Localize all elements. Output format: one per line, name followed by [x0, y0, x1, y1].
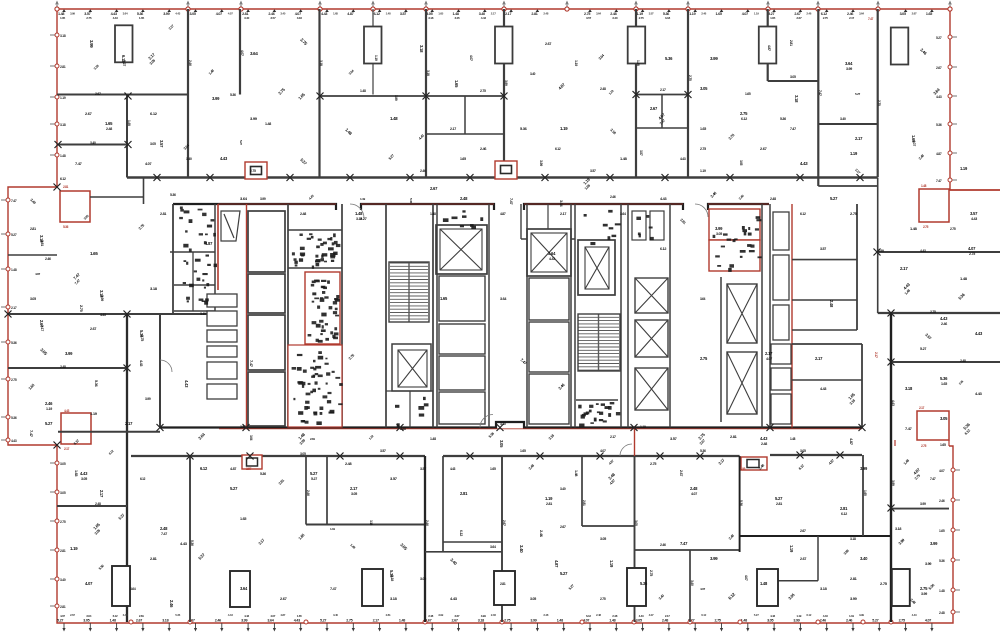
svg-text:2.81: 2.81 — [150, 556, 158, 561]
wall vertical x188 — [187, 9, 189, 177]
wall vertical x319 — [318, 9, 320, 177]
svg-text:2.48: 2.48 — [60, 365, 66, 369]
svg-text:2.46: 2.46 — [306, 490, 310, 496]
svg-text:5.27: 5.27 — [239, 140, 243, 145]
core top wall y204 — [173, 204, 769, 210]
svg-text:3.57: 3.57 — [159, 140, 164, 148]
svg-text:5.27: 5.27 — [320, 619, 326, 623]
svg-text:6.12: 6.12 — [806, 613, 811, 617]
svg-text:2.46: 2.46 — [45, 401, 53, 406]
svg-text:2.48: 2.48 — [960, 359, 966, 363]
wall y313 — [878, 312, 1000, 314]
svg-text:3.99: 3.99 — [793, 619, 799, 623]
svg-text:2.48: 2.48 — [491, 613, 496, 617]
svg-text:4.43: 4.43 — [450, 596, 458, 601]
svg-text:5.27: 5.27 — [311, 477, 317, 481]
svg-text:2.67: 2.67 — [452, 619, 458, 623]
svg-text:2.17: 2.17 — [491, 12, 496, 16]
svg-text:2.67: 2.67 — [800, 529, 806, 533]
svg-text:3.40: 3.40 — [612, 16, 618, 20]
svg-text:5.27: 5.27 — [360, 216, 367, 221]
svg-text:4.07: 4.07 — [744, 575, 748, 581]
svg-text:3.05: 3.05 — [499, 440, 504, 448]
door arcs — [160, 204, 708, 456]
svg-text:2.67: 2.67 — [95, 92, 101, 96]
svg-text:4.43: 4.43 — [823, 614, 828, 618]
svg-text:2.81: 2.81 — [160, 212, 166, 216]
svg-text:5.27: 5.27 — [45, 421, 53, 426]
svg-text:2.81: 2.81 — [531, 12, 537, 16]
svg-text:3.57: 3.57 — [270, 16, 276, 20]
wall y252 — [878, 251, 1000, 253]
svg-text:1.19: 1.19 — [374, 55, 378, 61]
svg-text:2.48: 2.48 — [761, 442, 767, 446]
svg-text:2.67: 2.67 — [455, 614, 460, 618]
svg-text:5.36: 5.36 — [936, 123, 942, 127]
svg-text:1.19: 1.19 — [640, 425, 646, 429]
svg-text:3.64: 3.64 — [859, 12, 864, 16]
svg-text:5.36: 5.36 — [739, 500, 743, 506]
svg-text:2.48: 2.48 — [95, 502, 101, 506]
svg-text:4.43: 4.43 — [639, 614, 644, 618]
svg-text:2.46: 2.46 — [45, 257, 51, 261]
elevator shafts lobby boxes — [248, 211, 285, 272]
svg-text:3.99: 3.99 — [163, 12, 169, 16]
svg-text:3.64: 3.64 — [250, 51, 258, 56]
svg-text:4.07: 4.07 — [228, 12, 233, 16]
wc red room — [305, 272, 340, 344]
bottom shafts — [112, 566, 130, 606]
wall x634 — [634, 456, 636, 622]
svg-text:3.40: 3.40 — [123, 613, 128, 617]
svg-text:1.19: 1.19 — [90, 411, 98, 416]
svg-text:3.99: 3.99 — [539, 160, 543, 166]
svg-text:3.99: 3.99 — [530, 619, 536, 623]
svg-text:3.05: 3.05 — [83, 619, 89, 623]
svg-text:2.46: 2.46 — [169, 600, 174, 608]
svg-text:1.48: 1.48 — [399, 619, 405, 623]
wall y94 left — [57, 94, 188, 96]
svg-text:2.75: 2.75 — [649, 570, 653, 576]
svg-text:7.47: 7.47 — [790, 127, 796, 131]
svg-text:4.07: 4.07 — [939, 469, 945, 473]
svg-text:1.48: 1.48 — [430, 212, 436, 216]
svg-text:3.99: 3.99 — [921, 592, 927, 596]
svg-text:1.19: 1.19 — [60, 96, 66, 100]
svg-text:2.17: 2.17 — [560, 212, 566, 216]
svg-text:5.27: 5.27 — [11, 233, 17, 237]
svg-text:7.47: 7.47 — [161, 532, 167, 536]
wall y536 — [740, 535, 891, 537]
svg-text:1.65: 1.65 — [60, 16, 66, 20]
svg-text:5.27: 5.27 — [830, 196, 838, 201]
svg-text:3.64: 3.64 — [249, 435, 253, 441]
svg-text:2.75: 2.75 — [60, 520, 66, 524]
svg-text:7.47: 7.47 — [249, 360, 254, 368]
wall y144 left — [57, 144, 127, 146]
svg-text:3.40: 3.40 — [90, 141, 96, 145]
svg-text:2.48: 2.48 — [770, 197, 776, 201]
core bottom wall y427 — [160, 422, 862, 428]
svg-text:1.65: 1.65 — [863, 490, 867, 496]
svg-text:2.17: 2.17 — [373, 619, 379, 623]
svg-text:1.19: 1.19 — [850, 151, 858, 156]
svg-text:2.48: 2.48 — [543, 12, 548, 16]
column — [891, 28, 909, 65]
red connect lower right — [895, 440, 949, 446]
svg-text:4.43: 4.43 — [975, 391, 983, 396]
long wall y177 — [127, 176, 878, 178]
svg-text:2.67: 2.67 — [936, 66, 942, 70]
svg-text:4.43: 4.43 — [180, 541, 188, 546]
wall vertical x636 — [635, 9, 637, 177]
svg-text:3.57: 3.57 — [970, 211, 978, 216]
wall vertical x426 — [425, 9, 427, 177]
wall x739 — [739, 456, 741, 552]
svg-text:3.40: 3.40 — [840, 117, 846, 121]
svg-text:3.05: 3.05 — [739, 160, 743, 166]
svg-text:2.75: 2.75 — [700, 147, 706, 151]
svg-text:3.99: 3.99 — [740, 467, 746, 471]
shaft boxes below E1 — [439, 276, 485, 321]
svg-text:3.18: 3.18 — [895, 527, 901, 531]
extra wc speckles — [294, 233, 337, 266]
duct boxes lower right — [771, 344, 791, 364]
svg-text:4.07: 4.07 — [700, 587, 706, 591]
svg-text:5.36: 5.36 — [230, 93, 236, 97]
svg-text:4.43: 4.43 — [971, 217, 977, 221]
svg-text:2.81: 2.81 — [582, 500, 586, 506]
shaft column right — [769, 204, 771, 428]
svg-text:5.27: 5.27 — [775, 496, 783, 501]
svg-text:2.81: 2.81 — [40, 240, 44, 246]
svg-text:3.57: 3.57 — [639, 150, 643, 156]
svg-text:1.19: 1.19 — [545, 496, 553, 501]
svg-text:3.05: 3.05 — [940, 416, 948, 421]
svg-text:4.87: 4.87 — [500, 212, 506, 216]
svg-text:1.65: 1.65 — [74, 470, 78, 476]
svg-text:4.07: 4.07 — [742, 12, 748, 16]
svg-text:1.65: 1.65 — [440, 296, 448, 301]
wall x502 — [501, 456, 503, 622]
wall vertical x240 — [239, 9, 241, 95]
wall x443 — [442, 456, 444, 552]
svg-text:3.99: 3.99 — [925, 562, 931, 566]
svg-text:4.43: 4.43 — [220, 156, 228, 161]
svg-text:4.07: 4.07 — [691, 492, 697, 496]
svg-text:2.81: 2.81 — [460, 491, 468, 496]
svg-text:3.18: 3.18 — [794, 95, 799, 103]
svg-text:4.43: 4.43 — [113, 16, 119, 20]
svg-text:3.99: 3.99 — [260, 197, 266, 201]
svg-text:3.05: 3.05 — [351, 492, 357, 496]
svg-text:2.48: 2.48 — [829, 300, 834, 308]
svg-text:3.05: 3.05 — [900, 12, 906, 16]
svg-text:3.57: 3.57 — [380, 449, 386, 453]
svg-text:1.19: 1.19 — [360, 197, 366, 201]
svg-text:2.67: 2.67 — [800, 557, 806, 561]
wall y186 — [818, 185, 877, 187]
svg-text:4.87: 4.87 — [230, 467, 236, 471]
svg-text:3.40: 3.40 — [530, 72, 536, 76]
svg-text:5.36: 5.36 — [11, 341, 17, 345]
wall y550 — [635, 549, 740, 551]
svg-text:2.81: 2.81 — [386, 613, 391, 617]
svg-text:4.87: 4.87 — [849, 438, 854, 446]
svg-text:3.64: 3.64 — [620, 212, 626, 216]
svg-text:2.75: 2.75 — [700, 356, 708, 361]
svg-text:3.05: 3.05 — [636, 619, 642, 623]
svg-text:1.65: 1.65 — [139, 16, 145, 20]
svg-text:3.99: 3.99 — [70, 12, 75, 16]
svg-text:3.18: 3.18 — [850, 537, 856, 541]
svg-text:4.43: 4.43 — [244, 614, 249, 618]
svg-text:5.36: 5.36 — [939, 559, 945, 563]
svg-text:2.46: 2.46 — [806, 12, 811, 16]
wall x863 — [862, 455, 864, 536]
svg-text:3.40: 3.40 — [200, 312, 206, 316]
svg-text:1.65: 1.65 — [90, 251, 98, 256]
svg-text:3.05: 3.05 — [716, 232, 722, 236]
svg-text:4.87: 4.87 — [280, 613, 285, 617]
svg-text:2.75: 2.75 — [504, 619, 510, 623]
shaft red box on y177 a — [245, 162, 267, 179]
svg-text:4.43: 4.43 — [920, 249, 926, 253]
svg-text:2.48: 2.48 — [596, 613, 601, 617]
svg-text:5.27: 5.27 — [122, 60, 126, 66]
svg-text:3.64: 3.64 — [86, 614, 91, 618]
red line y190 right — [949, 189, 1000, 191]
svg-text:4.07: 4.07 — [649, 613, 654, 617]
svg-text:3.99: 3.99 — [860, 466, 868, 471]
svg-text:1.65: 1.65 — [716, 12, 722, 16]
svg-text:2.17: 2.17 — [505, 12, 511, 16]
svg-text:3.05: 3.05 — [300, 452, 306, 456]
svg-text:5.27: 5.27 — [920, 347, 926, 351]
svg-text:1.65: 1.65 — [745, 92, 751, 96]
svg-text:4.43: 4.43 — [139, 360, 143, 366]
core left walls — [172, 204, 174, 314]
svg-text:3.99: 3.99 — [715, 226, 723, 231]
svg-text:3.99: 3.99 — [930, 541, 938, 546]
svg-text:2.75: 2.75 — [715, 619, 721, 623]
svg-text:3.05: 3.05 — [767, 619, 773, 623]
svg-text:4.43: 4.43 — [760, 436, 768, 441]
svg-text:4.43: 4.43 — [975, 331, 983, 336]
svg-text:3.05: 3.05 — [700, 86, 708, 91]
svg-text:2.46: 2.46 — [539, 530, 544, 538]
svg-text:5.27: 5.27 — [230, 486, 238, 491]
svg-text:1.48: 1.48 — [609, 619, 615, 623]
svg-text:5.36: 5.36 — [409, 198, 413, 204]
svg-text:3.64: 3.64 — [240, 196, 248, 201]
svg-text:3.99: 3.99 — [438, 613, 443, 617]
svg-text:7.47: 7.47 — [930, 477, 936, 481]
svg-text:3.57: 3.57 — [670, 436, 677, 441]
svg-text:3.18: 3.18 — [390, 575, 394, 581]
svg-text:4.43: 4.43 — [175, 12, 180, 16]
svg-text:4.07: 4.07 — [270, 614, 275, 618]
wall y124 — [818, 123, 877, 125]
svg-text:2.75: 2.75 — [877, 100, 881, 106]
svg-text:3.18: 3.18 — [319, 60, 323, 66]
wall x127 lower — [126, 314, 128, 622]
svg-text:4.43: 4.43 — [660, 197, 667, 201]
svg-text:3.18: 3.18 — [60, 123, 66, 127]
svg-text:2.75: 2.75 — [950, 227, 956, 231]
svg-text:5.36: 5.36 — [63, 225, 69, 229]
svg-text:2.17: 2.17 — [350, 486, 358, 491]
svg-text:5.36: 5.36 — [780, 117, 786, 121]
svg-text:3.99: 3.99 — [145, 397, 151, 401]
wall vertical x877 — [877, 9, 879, 177]
svg-text:2.17: 2.17 — [919, 406, 925, 410]
svg-text:3.57: 3.57 — [400, 12, 406, 16]
svg-text:2.75: 2.75 — [140, 335, 144, 341]
svg-text:3.57: 3.57 — [390, 476, 398, 481]
column — [115, 25, 133, 62]
svg-text:4.43: 4.43 — [912, 613, 917, 617]
svg-text:5.27: 5.27 — [754, 613, 759, 617]
svg-text:3.40: 3.40 — [560, 487, 566, 491]
svg-text:3.57: 3.57 — [649, 12, 654, 16]
wall y94 mid2 — [636, 94, 688, 96]
junction ticks — [5, 91, 895, 512]
svg-text:3.40: 3.40 — [280, 12, 285, 16]
svg-text:1.48: 1.48 — [110, 619, 116, 623]
svg-text:2.67: 2.67 — [70, 613, 75, 617]
svg-text:3.64: 3.64 — [596, 12, 601, 16]
svg-text:2.17: 2.17 — [11, 306, 17, 310]
svg-text:2.17: 2.17 — [125, 421, 133, 426]
svg-text:4.43: 4.43 — [891, 400, 895, 406]
svg-text:4.43: 4.43 — [184, 380, 189, 388]
svg-text:2.17: 2.17 — [874, 352, 878, 358]
svg-text:7.47: 7.47 — [509, 198, 513, 205]
svg-text:3.18: 3.18 — [150, 286, 158, 291]
svg-text:3.99: 3.99 — [100, 295, 104, 301]
svg-text:1.48: 1.48 — [390, 116, 398, 121]
svg-text:2.75: 2.75 — [921, 444, 927, 448]
dimension ticks left protrusion — [1, 198, 17, 443]
svg-text:3.99: 3.99 — [212, 96, 220, 101]
wall y508 — [891, 508, 949, 510]
svg-text:5.27: 5.27 — [57, 619, 63, 623]
svg-text:4.43: 4.43 — [770, 614, 775, 618]
svg-text:2.67: 2.67 — [912, 12, 917, 16]
column — [364, 27, 382, 64]
svg-text:3.40: 3.40 — [860, 556, 868, 561]
svg-text:7.47: 7.47 — [29, 430, 34, 438]
svg-text:6.12: 6.12 — [150, 111, 158, 116]
svg-text:2.46: 2.46 — [939, 499, 945, 503]
svg-text:6.12: 6.12 — [741, 117, 747, 121]
svg-text:4.07: 4.07 — [968, 246, 976, 251]
svg-text:3.99: 3.99 — [504, 80, 508, 86]
svg-text:2.81: 2.81 — [730, 434, 738, 439]
svg-text:7.47: 7.47 — [680, 541, 688, 546]
svg-text:1.65: 1.65 — [940, 443, 946, 447]
svg-text:2.17: 2.17 — [64, 447, 70, 451]
svg-text:4.07: 4.07 — [216, 12, 222, 16]
wall vertical x767 — [767, 9, 769, 81]
svg-text:3.40: 3.40 — [333, 613, 338, 617]
svg-text:2.17: 2.17 — [765, 351, 773, 356]
svg-text:1.65: 1.65 — [490, 467, 496, 471]
svg-text:2.17: 2.17 — [849, 16, 855, 20]
svg-text:2.75: 2.75 — [823, 16, 829, 20]
svg-text:6.12: 6.12 — [113, 614, 118, 618]
svg-text:2.81: 2.81 — [546, 502, 552, 506]
svg-text:3.18: 3.18 — [428, 16, 434, 20]
svg-text:2.75: 2.75 — [899, 619, 905, 623]
svg-text:4.43: 4.43 — [11, 439, 17, 443]
svg-text:2.81: 2.81 — [776, 502, 782, 506]
svg-text:3.99: 3.99 — [859, 613, 864, 617]
red square right lower — [917, 411, 949, 440]
svg-text:2.81: 2.81 — [60, 65, 66, 69]
svg-text:2.81: 2.81 — [500, 582, 506, 586]
wall vertical x818 — [817, 9, 819, 186]
svg-text:7.47: 7.47 — [818, 90, 822, 96]
svg-text:3.40: 3.40 — [244, 16, 250, 20]
svg-text:2.17: 2.17 — [855, 136, 863, 141]
svg-text:4.07: 4.07 — [925, 619, 931, 623]
small rooms below stair1 — [386, 390, 433, 392]
wall y431 left — [58, 431, 160, 433]
stair2 treads — [578, 314, 619, 371]
svg-text:3.99: 3.99 — [710, 556, 718, 561]
column — [759, 27, 777, 64]
svg-text:2.17: 2.17 — [815, 356, 823, 361]
wall column line x373 — [372, 9, 374, 95]
svg-text:2.17: 2.17 — [610, 435, 616, 439]
svg-text:3.18: 3.18 — [478, 619, 484, 623]
svg-text:3.05: 3.05 — [30, 297, 36, 301]
svg-text:2.48: 2.48 — [600, 87, 606, 91]
svg-text:1.19: 1.19 — [70, 546, 78, 551]
svg-text:2.46: 2.46 — [215, 619, 221, 623]
wall y197 — [90, 196, 144, 198]
svg-text:5.27: 5.27 — [855, 92, 861, 96]
svg-text:3.64: 3.64 — [548, 251, 556, 256]
svg-text:2.81: 2.81 — [60, 549, 66, 553]
svg-text:5.36: 5.36 — [260, 472, 266, 476]
svg-text:5.36: 5.36 — [94, 380, 99, 388]
svg-text:6.12: 6.12 — [200, 466, 208, 471]
svg-text:3.05: 3.05 — [150, 142, 156, 146]
svg-text:2.81: 2.81 — [850, 576, 858, 581]
svg-text:2.48: 2.48 — [460, 196, 468, 201]
svg-text:2.75: 2.75 — [79, 305, 84, 313]
wall x582 — [581, 456, 583, 526]
svg-text:1.48: 1.48 — [127, 120, 131, 126]
svg-text:5.36: 5.36 — [640, 581, 648, 586]
svg-text:3.18: 3.18 — [390, 596, 398, 601]
svg-text:2.75: 2.75 — [969, 252, 975, 256]
svg-text:5.36: 5.36 — [665, 56, 673, 61]
svg-text:2.67: 2.67 — [760, 146, 767, 151]
svg-text:1.19: 1.19 — [789, 545, 794, 553]
wc block walls — [287, 204, 289, 428]
svg-text:1.48: 1.48 — [910, 226, 918, 231]
svg-text:4.07: 4.07 — [85, 581, 93, 586]
svg-text:1.19: 1.19 — [46, 407, 52, 411]
svg-text:6.12: 6.12 — [459, 530, 463, 536]
svg-text:3.05: 3.05 — [634, 520, 638, 526]
wall vertical x504 — [503, 9, 505, 177]
svg-text:4.43: 4.43 — [820, 387, 826, 391]
